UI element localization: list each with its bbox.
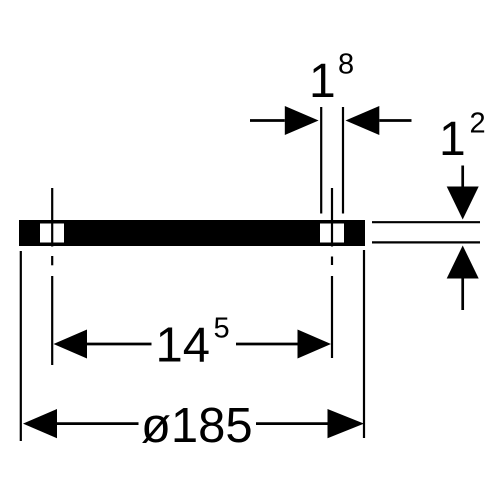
- thickness dimension lower arrow: [447, 246, 479, 311]
- right bolt hole: [320, 224, 344, 243]
- gasket cross-section bar: [19, 220, 365, 246]
- label 12: [439, 108, 486, 167]
- thickness dimension upper arrow: [447, 166, 479, 220]
- svg-text:5: 5: [214, 313, 230, 345]
- diameter right extension line: [363, 250, 365, 438]
- dimension 18 right arrow: [346, 106, 412, 135]
- right centerline: [331, 188, 333, 358]
- label 145: [156, 313, 230, 373]
- left bolt hole: [40, 224, 64, 243]
- svg-text:8: 8: [338, 49, 354, 81]
- dimension 18 extension line right: [342, 107, 344, 214]
- dimension 145 right arrow: [236, 330, 331, 359]
- svg-text:ø185: ø185: [141, 399, 253, 453]
- dimension 145 left arrow: [54, 330, 152, 359]
- svg-text:1: 1: [309, 55, 336, 108]
- thickness top extension line: [372, 221, 480, 223]
- svg-text:14: 14: [156, 319, 211, 373]
- left centerline: [51, 188, 53, 365]
- diameter left extension line: [20, 251, 22, 441]
- dimension diameter 185 left arrow: [23, 409, 139, 438]
- dimension 18 extension line left: [320, 107, 322, 214]
- svg-text:1: 1: [439, 113, 466, 166]
- label 18: [309, 49, 354, 109]
- thickness bottom extension line: [372, 241, 480, 243]
- dimension diameter 185 right arrow: [256, 409, 364, 438]
- svg-text:2: 2: [470, 108, 486, 140]
- dimension 18 left arrow: [250, 106, 319, 135]
